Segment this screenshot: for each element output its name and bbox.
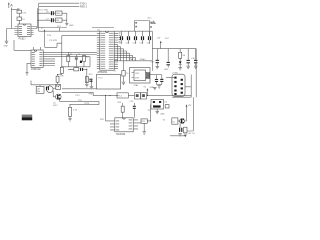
node A (top-left off-page arrow) [8,2,13,8]
net RXD-1 [39,6,88,8]
wire A to bus [45,43,62,47]
capacitor C21 [89,79,92,82]
ground (left of 5V mid) [85,85,89,87]
capacitor C6 (polarized) [46,11,54,15]
capacitor box C8 [56,18,63,22]
capacitor C3 [75,54,81,60]
wire bottom of top section [36,27,67,29]
wire bottom left feed [60,100,100,102]
speaker LS1 [47,85,56,93]
capacitor C23 [133,103,136,118]
wire corner to U2 [14,40,31,50]
U1 left pins [15,27,19,35]
MCU U3 (AT89C52, 40-pin DIP) [100,31,114,70]
capacitor C10 [119,31,124,44]
wire bus left vertical [37,3,38,27]
svg-text:TXD-1: TXD-1 [80,3,87,5]
wire vertical right of U4 [148,105,151,121]
node A (arrow up, middle) [41,27,45,48]
ground (C9) [122,82,126,84]
wire long bottom 1 [62,88,97,90]
svg-text:GND: GND [4,45,9,47]
U3 right pin number labels [119,33,121,43]
junction dots [57,66,151,121]
svg-text:VCC: VCC [57,26,62,28]
power module PS1 [151,100,164,110]
ground (C17) [186,66,190,68]
optocoupler U1 (8-pin DIP) [18,24,31,37]
wire far right vertical [195,49,197,98]
wire top rail [92,27,114,29]
ground (C18) [194,66,198,68]
wires reset cluster [68,52,84,67]
opto arrows [56,85,60,87]
wire DB9 right [172,75,191,98]
svg-text:GND: GND [88,94,93,96]
ground (C15) [156,66,160,68]
LED D2 [179,58,182,67]
capacitor C7 (polarized) [46,18,54,22]
wire joining caps [157,84,162,86]
svg-text:XTAL2: XTAL2 [140,58,147,61]
crystal X1 [146,72,147,79]
terminal box T2 [135,93,147,99]
wire long bottom 2 [62,92,191,95]
resistor R6 [179,49,186,59]
U4 right pins [133,120,141,129]
wire hook to input cluster [11,9,19,11]
ground (R15) [142,132,146,134]
svg-text:GND: GND [69,25,74,27]
power 5V arrow [157,37,170,48]
regulator U5 (7805 box) [56,11,63,15]
ground (crystal caps) [150,86,161,89]
capacitor C16 [164,49,170,71]
U1 pin texture [19,26,30,35]
wire join vertical [66,13,68,23]
resistor R11 [56,75,64,84]
svg-text:AT24C02: AT24C02 [31,68,41,71]
resistor R9 [17,9,27,15]
capacitor C20 [160,75,163,85]
oscillator module Y1 (box) [130,68,151,84]
resistor R3 (reset cluster) [67,54,73,62]
amplifier U6 (LM386 box) [36,85,44,94]
module box (below U3) [97,75,121,90]
resistor R10 (vertical under reset area) [58,67,64,76]
U4 pin texture [116,120,132,131]
wire stub with label [57,26,62,31]
ground (top middle) [65,23,74,27]
transistor Q1 [53,91,61,102]
capacitor C22 [46,87,49,91]
wire [19,13,21,17]
wire bottom rail [114,60,152,62]
U3 left pins [97,33,100,68]
capacitor C18 [191,49,197,67]
wire 5V rail [152,48,196,50]
diode D1 [17,17,26,21]
wire to DB9 left [162,78,174,81]
capacitor C11 [126,31,130,44]
svg-text:OSC: OSC [135,73,140,75]
wire right cluster vertical [86,69,88,84]
U2 pin texture [32,52,43,66]
svg-text:4.7K: 4.7K [22,13,27,15]
svg-text:GND: GND [160,114,165,116]
wire bottom right vertical [170,97,193,136]
IC U2 (EEPROM AT24C02) [31,50,43,67]
ground below PS1 [155,109,165,116]
ground (below U2) [25,73,28,75]
capacitor C14 [147,31,152,44]
wire from node A down [10,8,12,29]
svg-text:LM: LM [37,88,40,90]
tick labels on loop [135,22,152,28]
power arrow (bottom right) [184,104,192,121]
transistor Q2 [178,118,185,123]
ground (R13) [68,119,72,121]
wire row 2 [37,19,67,21]
wire second feed [70,103,100,105]
capacitor C24 [179,123,182,131]
svg-text:XTAL1: XTAL1 [129,58,136,61]
U2 right pin wires to U3 [43,52,97,65]
svg-text:RXD-1: RXD-1 [80,7,88,9]
U4 left pins [110,121,115,130]
svg-text:P3.1/RX: P3.1/RX [50,40,58,42]
svg-text:VCC: VCC [147,18,152,20]
U2 top pins [34,47,41,50]
svg-text:12M: 12M [135,78,139,80]
ground (D6) [184,134,188,136]
wire long to U3 (row2) [62,35,97,37]
wire XTAL drop [123,61,125,71]
svg-text:4.7K: 4.7K [73,110,78,112]
wire bus staircase [118,44,136,60]
capacitor C13 [140,31,145,44]
svg-text:PC817: PC817 [19,38,27,40]
diode D6 box [184,127,187,133]
wire local bus [31,81,56,85]
resistor R12 [85,74,93,82]
resistor R13 [69,105,78,119]
capacitor C12 [133,31,138,44]
wire crystal to caps [150,74,162,76]
U3 pin name text columns [101,33,114,69]
connector J1 (DB9) [172,72,185,96]
capacitor C9 [122,71,129,83]
ground (LED) [178,68,182,70]
ground (C24) [178,134,182,136]
wire right section left edge [151,31,153,71]
U1 right pins [31,27,37,35]
power VCC symbol (triangle) [147,18,156,24]
capacitor C15 [151,49,159,67]
resistor R15 [141,119,151,132]
switch S1 [80,61,82,63]
power 5V arrow (bottom mid) [144,86,149,95]
terminal box T1 [117,93,128,98]
power 5V arrow (mid) [86,79,92,86]
wire to U1 top [19,20,21,24]
U2 left pin + ground [27,63,31,72]
svg-text:GND: GND [164,69,169,71]
wire to U4 [99,96,110,121]
wire left of U1 [7,29,16,42]
watermark block [22,115,32,118]
wire long to U3 (row1) [39,28,100,32]
wire VCC loop [135,21,150,37]
U3 right pins [114,33,135,68]
resistor R4 [83,56,90,62]
wire reset bottom [62,57,90,67]
wire vertical left of reset cluster [61,36,63,67]
svg-text:VCC: VCC [165,38,170,40]
ground (bottom mid) [153,87,157,89]
component RC (horizontal) [68,68,87,71]
resistor R14 [121,103,124,118]
capacitor C17 [187,49,190,67]
ground (left) [4,41,9,47]
diode bridge small box [165,105,169,108]
relay box K2 [172,118,178,124]
opto box [56,84,61,89]
svg-text:MAX232: MAX232 [116,133,126,136]
wire row 1 [37,12,67,14]
capacitor C19 [155,75,158,85]
ground (mid) [90,87,94,89]
IC U4 (MAX232) [115,118,133,132]
svg-text:AT89C52: AT89C52 [98,71,108,74]
wire cap rail [114,30,152,32]
net TXD-1 [39,3,88,5]
